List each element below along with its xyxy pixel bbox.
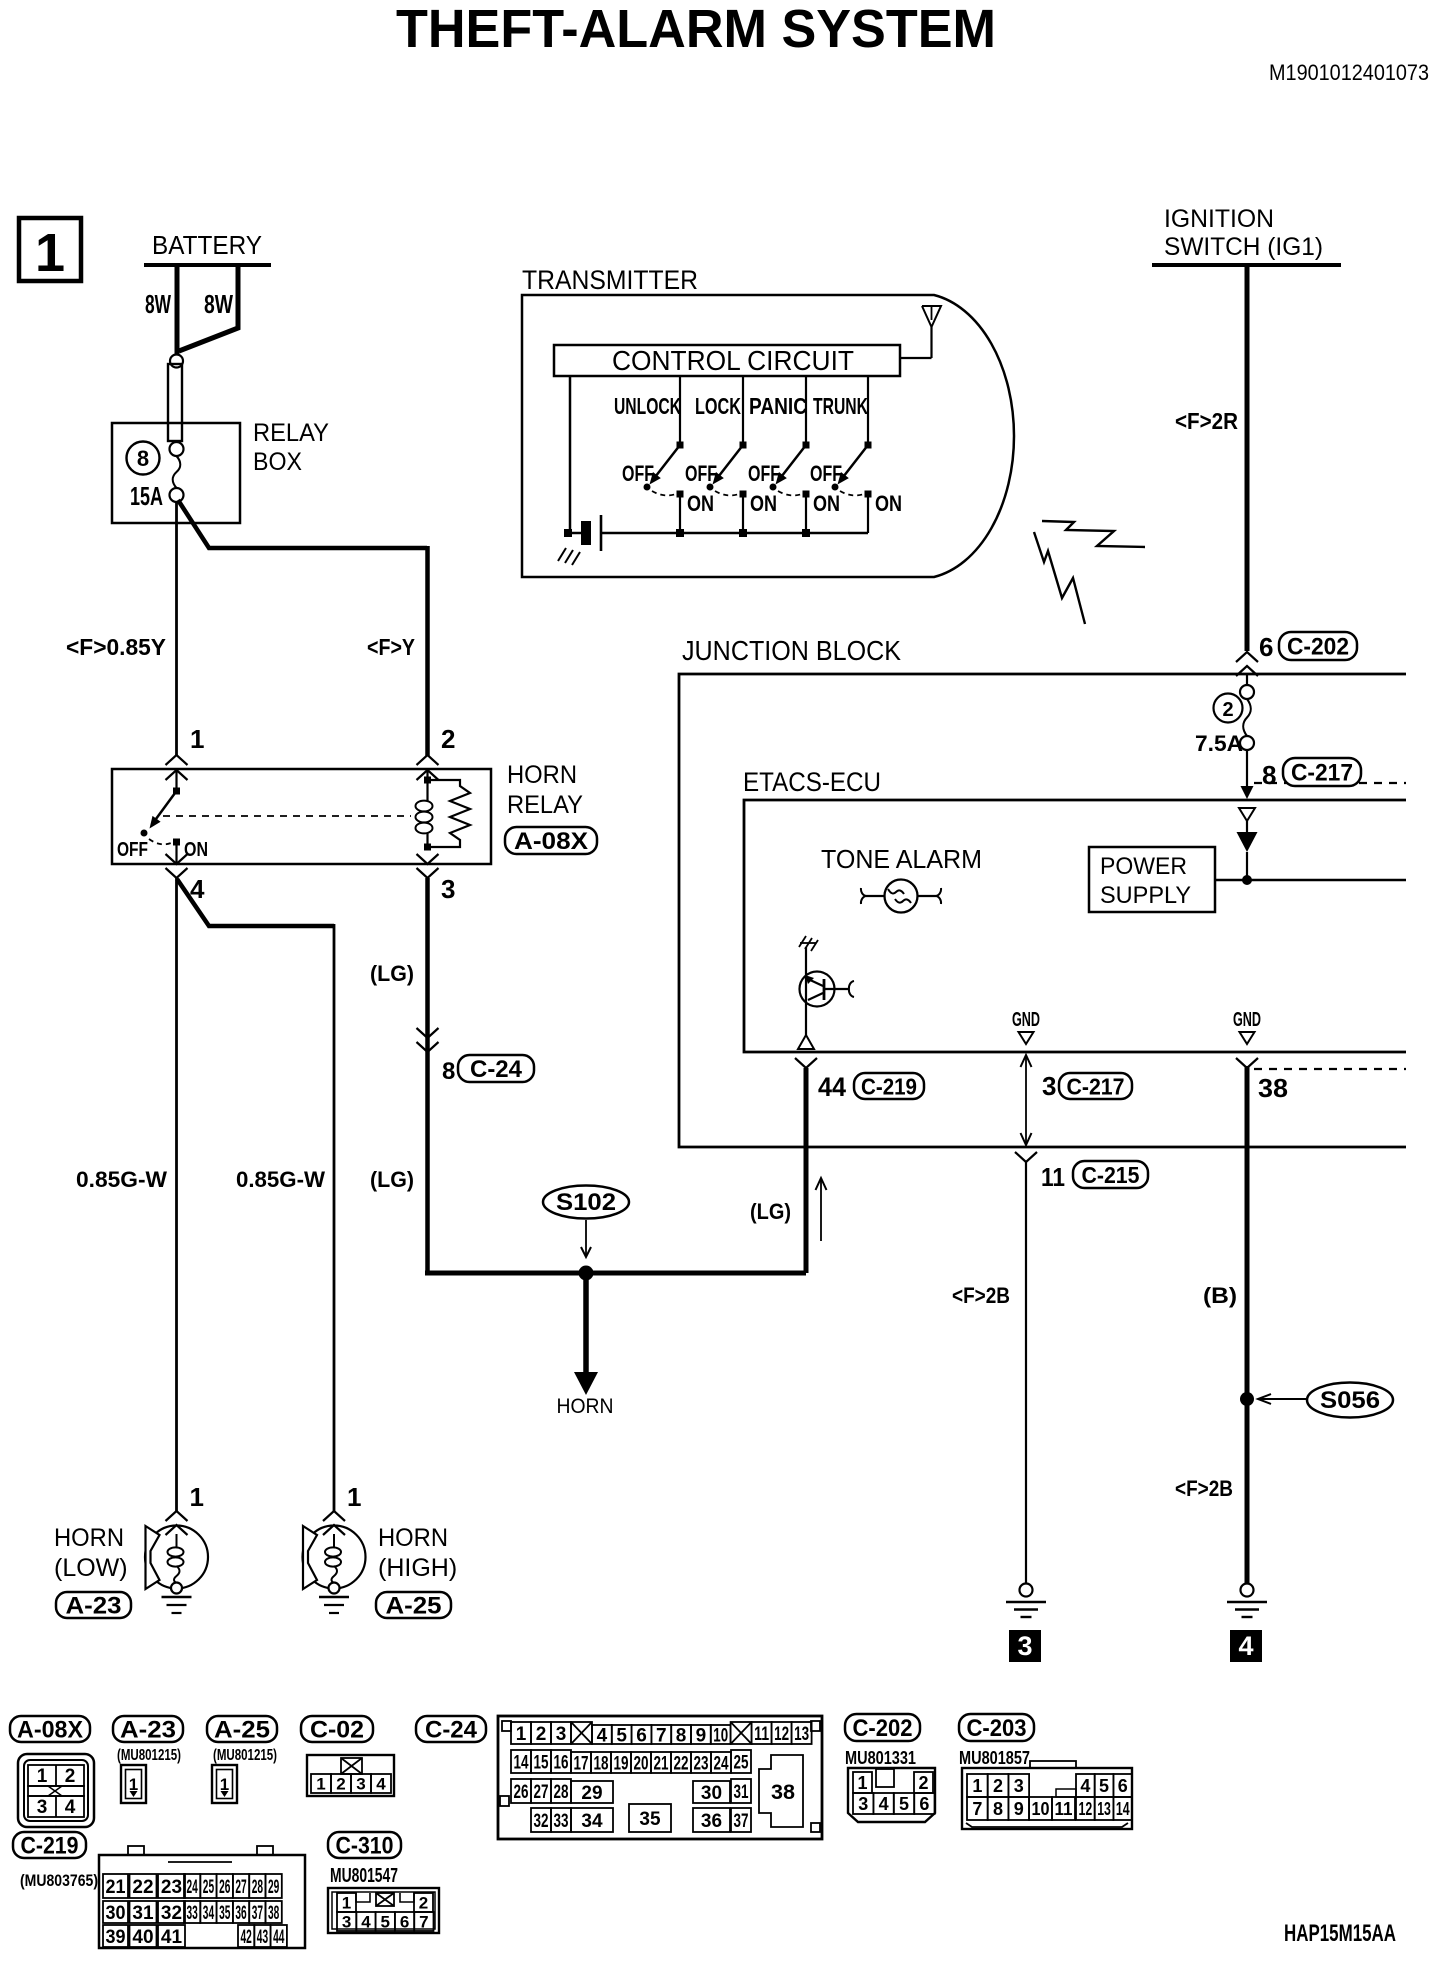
relay resistor [428,780,471,847]
svg-text:C-219: C-219 [861,1073,917,1099]
switch PANIC [805,376,807,444]
svg-text:15A: 15A [130,481,163,511]
arrow up beside pin 44 wire [820,1180,822,1241]
svg-text:33: 33 [187,1903,198,1924]
svg-text:1: 1 [316,1775,325,1794]
svg-text:C-02: C-02 [310,1717,364,1744]
svg-text:OFF: OFF [748,461,780,486]
relay linkage dashed [163,815,411,817]
svg-text:19: 19 [614,1753,629,1774]
svg-text:13: 13 [1097,1799,1111,1819]
page number box 1 [19,218,81,281]
svg-text:3: 3 [1042,1071,1056,1101]
svg-text:24: 24 [714,1753,729,1774]
svg-text:1: 1 [347,1482,361,1512]
svg-text:IGNITION: IGNITION [1164,205,1274,233]
svg-text:8: 8 [1262,760,1276,790]
svg-text:(LOW): (LOW) [54,1554,128,1582]
svg-text:26: 26 [514,1782,529,1803]
connector A-25 pinout [207,1716,277,1742]
svg-text:2: 2 [993,1776,1003,1796]
svg-text:UNLOCK: UNLOCK [614,393,681,419]
svg-text:RELAY: RELAY [507,791,583,819]
svg-text:7.5A: 7.5A [1195,731,1243,756]
svg-text:27: 27 [235,1877,246,1898]
svg-text:11: 11 [1055,1799,1073,1819]
svg-text:5: 5 [381,1913,390,1932]
svg-text:11: 11 [754,1724,769,1745]
horn A-23 [166,1511,188,1521]
svg-text:(MU803765): (MU803765) [20,1871,98,1890]
svg-text:3: 3 [342,1913,351,1932]
connector C-202 pinout [845,1714,920,1741]
svg-text:3: 3 [1017,1631,1032,1661]
svg-text:28: 28 [252,1877,263,1898]
svg-text:39: 39 [106,1927,126,1948]
svg-text:GND: GND [1012,1009,1040,1031]
pin 3 crossing [417,854,439,864]
svg-text:38: 38 [771,1781,795,1804]
wire fuse to horn relay pin 1 [175,501,178,756]
connector C-02 pinout [301,1716,373,1742]
svg-text:5: 5 [1099,1776,1109,1796]
svg-text:POWER: POWER [1100,853,1187,880]
horn relay A-08X [112,769,491,864]
svg-text:29: 29 [581,1783,602,1804]
svg-text:14: 14 [1116,1799,1130,1819]
wire ETACS pin 3 to junction block 11 C-215 [1025,1056,1027,1145]
svg-text:1: 1 [190,1482,204,1512]
switch bus wire [601,532,868,535]
svg-text:GND: GND [1233,1009,1261,1031]
svg-text:LOCK: LOCK [695,393,741,419]
svg-text:C-202: C-202 [1287,634,1349,661]
transistor Q1 [799,936,806,947]
svg-text:2: 2 [536,1724,547,1745]
svg-text:OFF: OFF [622,461,654,486]
svg-text:C-217: C-217 [1067,1073,1125,1099]
svg-text:9: 9 [1014,1799,1024,1819]
fusible link [170,355,183,368]
splice S102 [543,1186,629,1219]
svg-text:1: 1 [190,724,204,754]
svg-text:C-24: C-24 [425,1717,478,1744]
svg-text:8: 8 [442,1058,455,1085]
svg-text:8: 8 [993,1799,1003,1819]
svg-text:12: 12 [1079,1799,1093,1819]
svg-text:11: 11 [1041,1162,1065,1192]
page ref box 3 [1009,1630,1041,1662]
svg-text:7: 7 [419,1913,428,1932]
svg-text:4: 4 [1238,1631,1253,1661]
wire pin 4 to horn high [177,879,334,926]
svg-text:34: 34 [203,1903,215,1924]
node pin 44 triangle [798,1035,814,1049]
transmitter internal battery [568,532,581,535]
svg-text:38: 38 [268,1903,279,1924]
svg-text:9: 9 [696,1725,707,1746]
ground 3 [1020,1584,1033,1597]
dashed bus pin 38 [1254,1068,1406,1070]
svg-text:5: 5 [616,1725,627,1746]
ground 4 [1241,1584,1254,1597]
svg-text:1: 1 [35,223,65,283]
radio wave zigzag [1042,521,1145,547]
svg-text:HORN: HORN [378,1524,448,1552]
wire fuse to ETACS 8 C-217 [1246,750,1248,788]
horn A-25 [323,1511,345,1521]
svg-text:30: 30 [106,1903,126,1924]
svg-text:A-08X: A-08X [514,828,588,855]
svg-text:C-24: C-24 [470,1056,523,1083]
svg-text:TONE ALARM: TONE ALARM [821,844,982,874]
pin 2 crossing [417,755,439,765]
svg-text:35: 35 [219,1903,231,1924]
pin 4 crossing [166,854,188,864]
svg-text:THEFT-ALARM SYSTEM: THEFT-ALARM SYSTEM [396,0,996,59]
svg-text:42: 42 [241,1927,252,1948]
svg-text:ON: ON [813,491,840,516]
svg-text:(LG): (LG) [370,961,414,986]
wire horn bus [425,1271,806,1276]
svg-text:44: 44 [818,1072,846,1102]
svg-text:(LG): (LG) [370,1167,414,1192]
connector C-219 pinout [13,1832,86,1858]
svg-text:C-215: C-215 [1082,1162,1140,1188]
svg-text:1: 1 [516,1724,527,1745]
svg-text:8: 8 [676,1725,687,1746]
control circuit box U1 [554,345,900,376]
svg-text:10: 10 [713,1725,728,1746]
svg-text:<F>2B: <F>2B [1175,1476,1233,1501]
svg-text:20: 20 [634,1753,649,1774]
svg-text:22: 22 [674,1753,689,1774]
svg-text:18: 18 [594,1753,609,1774]
svg-text:12: 12 [774,1724,789,1745]
fuse 2 7.5A [1246,675,1248,685]
svg-text:4: 4 [361,1913,371,1932]
svg-text:7: 7 [972,1799,982,1819]
connector C-310 pinout [328,1832,401,1858]
svg-text:S102: S102 [556,1189,616,1216]
svg-text:A-23: A-23 [120,1717,176,1744]
svg-text:HORN: HORN [507,761,577,789]
svg-text:37: 37 [734,1811,749,1832]
svg-text:MU801547: MU801547 [330,1865,398,1887]
wire pin 4 to horn low [175,878,178,1511]
connector A-23 pinout [113,1716,183,1742]
svg-text:4: 4 [65,1797,76,1818]
svg-text:43: 43 [257,1927,268,1948]
page ref box 4 [1230,1630,1262,1662]
svg-text:10: 10 [1032,1799,1050,1819]
svg-text:34: 34 [581,1811,603,1832]
svg-text:MU801331: MU801331 [845,1748,916,1768]
svg-text:3: 3 [37,1797,48,1818]
svg-text:TRANSMITTER: TRANSMITTER [522,265,698,295]
svg-text:ON: ON [875,491,902,516]
svg-text:JUNCTION BLOCK: JUNCTION BLOCK [682,635,901,666]
svg-text:1: 1 [857,1773,867,1793]
switch LOCK [742,376,744,444]
svg-text:A-25: A-25 [386,1593,442,1620]
svg-text:3: 3 [556,1724,567,1745]
svg-text:4: 4 [376,1775,386,1794]
svg-text:S056: S056 [1320,1387,1380,1414]
svg-text:6: 6 [636,1725,647,1746]
node power supply junction [1242,875,1252,885]
svg-text:26: 26 [219,1877,230,1898]
svg-text:(LG): (LG) [750,1199,791,1224]
pin 1 crossing [166,755,188,765]
svg-text:3: 3 [441,874,455,904]
svg-text:5: 5 [899,1794,909,1814]
svg-text:31: 31 [132,1903,154,1924]
svg-text:21: 21 [106,1877,126,1898]
svg-text:0.85G-W: 0.85G-W [76,1167,167,1192]
svg-text:6: 6 [1118,1776,1128,1796]
svg-text:32: 32 [534,1811,549,1832]
transmitter ground [558,548,566,561]
svg-text:30: 30 [701,1783,722,1804]
node S102 junction [579,1266,594,1281]
svg-text:<F>2R: <F>2R [1175,408,1238,434]
svg-text:32: 32 [161,1903,182,1924]
svg-text:36: 36 [235,1903,246,1924]
svg-text:22: 22 [132,1877,153,1898]
svg-text:CONTROL CIRCUIT: CONTROL CIRCUIT [612,345,854,376]
svg-text:17: 17 [574,1753,589,1774]
svg-text:A-25: A-25 [214,1717,270,1744]
fuse 8 15A [170,442,184,456]
svg-text:C-310: C-310 [336,1833,394,1860]
svg-text:MU801857: MU801857 [959,1748,1030,1768]
svg-text:14: 14 [514,1752,529,1773]
svg-text:31: 31 [734,1782,749,1803]
svg-text:2: 2 [1222,699,1233,721]
svg-text:41: 41 [161,1927,183,1948]
svg-text:1: 1 [342,1894,351,1913]
svg-text:0.85G-W: 0.85G-W [236,1167,325,1192]
svg-text:RELAY: RELAY [253,419,329,447]
relay coil [426,770,428,801]
wire battery left 8W [175,263,180,356]
svg-text:21: 21 [654,1753,669,1774]
svg-text:3: 3 [1014,1776,1024,1796]
svg-text:6: 6 [400,1913,409,1932]
svg-text:A-23: A-23 [66,1593,122,1620]
svg-text:36: 36 [701,1811,722,1832]
svg-text:(HIGH): (HIGH) [378,1554,457,1582]
svg-text:44: 44 [273,1927,285,1948]
svg-text:33: 33 [554,1811,569,1832]
svg-text:C-217: C-217 [1291,760,1353,787]
svg-text:(MU801215): (MU801215) [213,1747,277,1764]
svg-text:40: 40 [132,1927,153,1948]
arrow to HORN [583,1273,589,1374]
svg-text:C-203: C-203 [967,1715,1027,1742]
svg-text:27: 27 [534,1782,549,1803]
svg-text:C-219: C-219 [21,1833,79,1860]
svg-text:29: 29 [268,1877,279,1898]
svg-text:2: 2 [441,724,455,754]
svg-text:(MU801215): (MU801215) [117,1747,181,1764]
wire battery right 8W [179,263,238,351]
antenna [922,306,941,327]
svg-text:13: 13 [794,1724,809,1745]
switch UNLOCK [679,376,681,444]
svg-text:2: 2 [336,1775,345,1794]
wire control circuit ground leg [569,376,572,533]
svg-text:24: 24 [187,1877,199,1898]
svg-text:6: 6 [1259,632,1273,662]
relay box [112,423,240,523]
svg-text:2: 2 [419,1894,428,1913]
svg-text:35: 35 [639,1809,661,1830]
svg-text:25: 25 [203,1877,215,1898]
svg-text:<F>Y: <F>Y [367,634,415,660]
svg-text:2: 2 [918,1773,928,1793]
svg-text:38: 38 [1258,1073,1288,1103]
svg-text:4: 4 [597,1725,608,1746]
svg-text:23: 23 [161,1877,182,1898]
svg-text:SWITCH (IG1): SWITCH (IG1) [1164,233,1323,261]
svg-text:<F>2B: <F>2B [952,1283,1010,1308]
svg-text:16: 16 [554,1752,569,1773]
svg-text:6: 6 [919,1794,929,1814]
svg-text:ON: ON [750,491,777,516]
svg-text:28: 28 [554,1782,569,1803]
relay switch [175,770,177,790]
svg-text:PANIC: PANIC [749,393,807,419]
svg-text:TRUNK: TRUNK [813,393,868,419]
connector C-203 pinout [959,1714,1034,1741]
svg-text:4: 4 [879,1794,889,1814]
svg-text:15: 15 [534,1752,549,1773]
svg-text:ETACS-ECU: ETACS-ECU [743,767,881,797]
svg-text:M1901012401073: M1901012401073 [1269,60,1429,85]
svg-text:25: 25 [734,1752,749,1773]
svg-text:HORN: HORN [54,1524,124,1552]
connector A-08X pinout [10,1716,90,1742]
wire ignition to junction block [1245,263,1250,651]
wire 11 C-215 to ground [1025,1162,1027,1584]
svg-text:A-08X: A-08X [17,1717,83,1744]
svg-text:7: 7 [656,1725,667,1746]
svg-text:2: 2 [65,1766,76,1787]
wire pin 3 LG [425,878,430,1273]
connector 8 C-24 crossing [417,1028,439,1038]
svg-text:BOX: BOX [253,448,302,476]
wire ETACS pin 38 to ground [1236,1058,1258,1068]
svg-text:C-202: C-202 [853,1715,913,1742]
svg-text:3: 3 [356,1775,365,1794]
svg-text:<F>0.85Y: <F>0.85Y [66,634,166,660]
svg-text:8W: 8W [204,289,233,319]
svg-text:(B): (B) [1203,1283,1237,1308]
svg-text:HAP15M15AA: HAP15M15AA [1284,1920,1396,1947]
power supply [1089,847,1215,912]
svg-text:1: 1 [972,1776,982,1796]
svg-text:8W: 8W [145,289,171,319]
svg-text:OFF: OFF [685,461,717,486]
svg-text:8: 8 [137,446,149,471]
svg-text:OFF: OFF [810,461,842,486]
wire ETACS pin 44 [795,1058,817,1068]
connector 6 C-202 crossing [1236,652,1258,662]
dashed bus 8 C-217 [1254,782,1406,784]
connector C-24 pinout [416,1716,486,1742]
splice S056 [1240,1392,1254,1406]
svg-text:HORN: HORN [557,1395,614,1418]
svg-text:1: 1 [37,1766,48,1787]
diode D1 [1239,808,1255,821]
svg-text:SUPPLY: SUPPLY [1100,882,1191,909]
svg-text:BATTERY: BATTERY [152,230,262,260]
svg-text:OFF: OFF [117,839,148,861]
switch TRUNK [867,376,869,444]
svg-text:ON: ON [687,491,714,516]
svg-text:4: 4 [1080,1776,1090,1796]
wire fuse to horn relay pin 2 [178,500,427,548]
svg-text:23: 23 [694,1753,709,1774]
svg-text:ON: ON [184,839,208,861]
svg-text:3: 3 [858,1794,868,1814]
svg-text:37: 37 [252,1903,263,1924]
